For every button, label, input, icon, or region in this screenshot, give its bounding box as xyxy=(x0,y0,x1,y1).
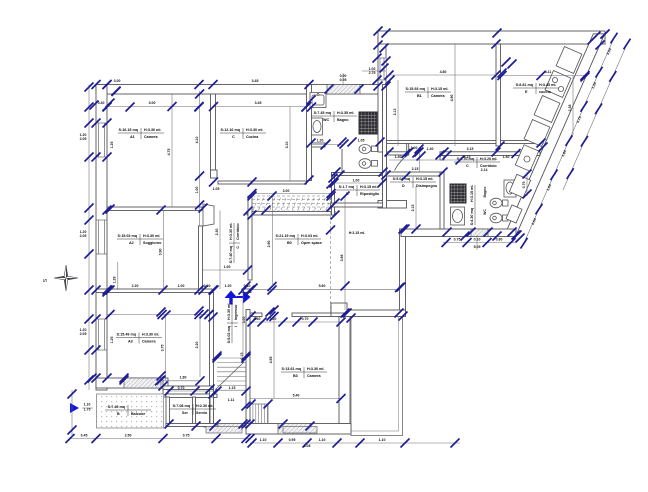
room label C Corridoio right xyxy=(454,157,500,168)
svg-text:2.05: 2.05 xyxy=(80,234,87,238)
washbasin bagno top xyxy=(312,118,323,135)
svg-text:S:16.15 mq: S:16.15 mq xyxy=(119,128,138,132)
svg-text:H:3.30 ml.: H:3.30 ml. xyxy=(229,223,233,240)
room label B3 Camera xyxy=(281,367,327,378)
wall y290 right stub xyxy=(242,289,251,293)
wall between A1 and A2 xyxy=(107,207,202,211)
toilet bagno top xyxy=(359,145,371,154)
svg-text:S:7.08 mq: S:7.08 mq xyxy=(173,404,190,408)
svg-text:4.10: 4.10 xyxy=(195,137,199,144)
dim cucina vertical xyxy=(289,107,291,181)
svg-text:1.20: 1.20 xyxy=(317,139,324,143)
dashed beam line vertical in open space xyxy=(330,196,332,313)
svg-text:0.80: 0.80 xyxy=(496,238,503,242)
window B3 bottom xyxy=(278,424,310,435)
dim top wall A1 xyxy=(107,84,199,86)
corridor nook stub wall xyxy=(383,152,409,155)
svg-text:Bagno: Bagno xyxy=(483,187,487,198)
dim open space vertical right xyxy=(344,196,346,310)
svg-text:H:3.20 ml.: H:3.20 ml. xyxy=(480,157,497,161)
window dim tick line xyxy=(342,73,344,84)
dim stub below window2 xyxy=(117,262,119,290)
svg-text:H:3.15 ml.: H:3.15 ml. xyxy=(416,177,433,181)
svg-text:1.28: 1.28 xyxy=(113,277,117,284)
dim bottom right row xyxy=(250,442,460,444)
svg-text:3.10: 3.10 xyxy=(285,142,289,149)
svg-text:1.00: 1.00 xyxy=(224,265,231,269)
diagonal dimension line 2 (outer) xyxy=(563,44,627,190)
svg-text:3.00: 3.00 xyxy=(149,101,156,105)
notch chimney above B3 xyxy=(331,303,347,313)
dim bottom left row xyxy=(70,438,250,440)
svg-text:3.66: 3.66 xyxy=(340,255,344,262)
soggiorno right wall xyxy=(199,226,203,291)
dim door vertical x419.5 xyxy=(419,147,421,172)
dim B3 vertical 4.55 xyxy=(273,317,275,399)
svg-text:C: C xyxy=(232,135,235,139)
room label D Disimpegno xyxy=(390,177,438,188)
window left wall 3 xyxy=(97,319,107,350)
svg-text:1.10: 1.10 xyxy=(84,403,91,407)
svg-text:Ingresso: Ingresso xyxy=(234,304,238,320)
svg-text:S:7.49 mq: S:7.49 mq xyxy=(108,405,125,409)
dim line above wall x365-386 xyxy=(362,70,386,72)
svg-text:2.50: 2.50 xyxy=(125,434,132,438)
kitchen counter units along diagonal xyxy=(556,47,582,74)
dim B1 vertical xyxy=(454,44,456,146)
room label A2 Soggiorno xyxy=(117,234,163,245)
svg-text:0.95: 0.95 xyxy=(289,438,296,442)
room label C Cucina xyxy=(220,128,266,139)
svg-text:S:7.40 mq: S:7.40 mq xyxy=(229,246,233,263)
room label B Balcone xyxy=(105,405,151,416)
svg-text:1.40: 1.40 xyxy=(395,155,402,159)
upper block top wall xyxy=(378,31,605,44)
svg-text:C: C xyxy=(466,164,469,168)
terrace parapet around B3 xyxy=(351,315,403,436)
svg-text:2.05: 2.05 xyxy=(80,332,87,336)
sink right bagno xyxy=(451,207,465,225)
bagno+ripostiglio right wall xyxy=(383,85,387,209)
svg-text:H:3.30 ml.: H:3.30 ml. xyxy=(144,128,161,132)
svg-text:2.30: 2.30 xyxy=(215,229,219,236)
svg-text:1.25: 1.25 xyxy=(110,337,114,344)
svg-text:H:3.15 ml.: H:3.15 ml. xyxy=(470,185,474,202)
svg-text:S:5.04 mq: S:5.04 mq xyxy=(393,177,410,181)
svg-text:4.55: 4.55 xyxy=(269,357,273,364)
dimension tick clusters at wall junctions xyxy=(493,29,502,38)
svg-text:H:3.35 ml.: H:3.35 ml. xyxy=(337,111,354,115)
dim corridor 1.00 xyxy=(203,269,248,271)
svg-text:H:3.30 ml.: H:3.30 ml. xyxy=(246,128,263,132)
svg-text:2.75: 2.75 xyxy=(369,71,376,75)
dim 3.00 over dashed band xyxy=(252,193,331,195)
dim ripostiglio 1.00 xyxy=(335,182,383,184)
svg-text:0.45: 0.45 xyxy=(81,434,88,438)
B3 left wall xyxy=(246,310,250,428)
servizio bottom wall xyxy=(166,424,217,427)
svg-text:1.25: 1.25 xyxy=(110,142,114,149)
room label A1 Camera xyxy=(118,128,164,139)
dim B1 left vertical xyxy=(397,80,399,146)
svg-text:WC: WC xyxy=(323,118,329,122)
bagno right left wall xyxy=(440,172,444,229)
B3 terrace outline outer xyxy=(0,0,1,1)
open space right wall xyxy=(400,229,406,316)
rb vert dim xyxy=(476,235,478,250)
balcone bottom-left floor xyxy=(97,394,164,428)
svg-text:A1: A1 xyxy=(130,135,135,139)
svg-text:3.15: 3.15 xyxy=(467,147,474,151)
svg-text:H:3.45 ml.: H:3.45 ml. xyxy=(539,83,556,87)
dim B3 top row xyxy=(250,321,341,323)
entrance arrow up xyxy=(225,291,238,305)
svg-text:3.15: 3.15 xyxy=(464,155,471,159)
svg-text:H:3.30 ml.: H:3.30 ml. xyxy=(227,303,231,320)
dim 0.75 bagno right side xyxy=(526,172,528,196)
exterior left wall xyxy=(96,85,107,391)
low wall below wardrobe band xyxy=(247,212,335,216)
wall between A1 and cucina xyxy=(211,94,216,170)
toilet right bagno xyxy=(490,198,502,208)
svg-text:S:8.81 mq: S:8.81 mq xyxy=(516,83,533,87)
door jamb hook below cucina wall xyxy=(211,170,218,178)
balcony arrow right xyxy=(70,403,79,413)
B3 top wall right of door xyxy=(292,313,347,317)
window left wall 1 xyxy=(97,123,107,157)
svg-text:3.45: 3.45 xyxy=(255,101,262,105)
sink between cucina and bagno xyxy=(310,93,326,108)
dim servizio top xyxy=(169,390,217,392)
svg-text:0.40: 0.40 xyxy=(98,101,105,105)
svg-text:4.75: 4.75 xyxy=(167,149,171,156)
svg-text:S:5.02 mq: S:5.02 mq xyxy=(227,326,231,343)
svg-text:3.45: 3.45 xyxy=(252,79,259,83)
svg-text:Camera: Camera xyxy=(142,340,156,344)
svg-text:1.20: 1.20 xyxy=(225,284,232,288)
dim A3 top row xyxy=(107,314,210,316)
sink bowl on counter xyxy=(524,156,530,162)
dashed wardrobe band in open space xyxy=(252,196,331,211)
svg-text:0.40: 0.40 xyxy=(254,317,261,321)
svg-text:cucina: cucina xyxy=(539,90,552,94)
svg-text:H:3.15 ml.: H:3.15 ml. xyxy=(349,231,366,235)
assorted dimension ticks xyxy=(195,103,204,112)
svg-text:WC: WC xyxy=(483,209,487,215)
ingresso left wall / stair shaft xyxy=(210,293,214,428)
sink2 right bagno top-right xyxy=(504,180,516,197)
room label I Ingresso (vertical) xyxy=(227,303,238,344)
cucina right wall / bagno left xyxy=(307,85,312,181)
svg-text:1.00: 1.00 xyxy=(195,187,199,194)
room label C Corridoio left (vertical) xyxy=(229,223,240,264)
dim balcone left vertical xyxy=(71,390,73,437)
upper block bottom wall xyxy=(383,141,543,144)
svg-text:0.75: 0.75 xyxy=(522,182,526,189)
bidet right bagno xyxy=(490,213,502,223)
svg-text:1.10: 1.10 xyxy=(260,438,267,442)
cucina bottom wall xyxy=(218,181,307,184)
room label B0 Open space xyxy=(275,234,322,245)
entrance arrow right xyxy=(237,296,244,298)
dim open space 5.60 xyxy=(252,289,401,291)
dim left exterior line xyxy=(88,85,90,391)
hob circles on counter xyxy=(552,77,557,82)
shower bagno top xyxy=(359,112,377,134)
svg-text:3.00: 3.00 xyxy=(114,79,121,83)
dim A1 right wall segments xyxy=(199,91,201,226)
svg-text:3.75: 3.75 xyxy=(161,345,165,352)
svg-text:Disimpegno: Disimpegno xyxy=(416,184,438,188)
svg-text:C: C xyxy=(236,246,240,249)
svg-text:2.15: 2.15 xyxy=(411,205,415,212)
exterior top wall of main block xyxy=(96,85,386,95)
svg-text:2.13: 2.13 xyxy=(393,109,397,116)
servizio right wall xyxy=(210,397,214,427)
dim A3 1.80 xyxy=(160,380,201,382)
dim open space vertical 2.90 xyxy=(272,196,274,286)
svg-text:5.40: 5.40 xyxy=(293,394,300,398)
svg-text:1.80: 1.80 xyxy=(180,376,187,380)
room label B1 Camera xyxy=(405,87,451,98)
svg-text:I: I xyxy=(234,326,238,327)
toilet area bottom wall xyxy=(332,173,387,176)
svg-text:H:3.03 ml.: H:3.03 ml. xyxy=(301,234,318,238)
svg-text:B: B xyxy=(117,412,120,416)
svg-text:S: S xyxy=(43,278,49,282)
svg-text:H:3.30 ml.: H:3.30 ml. xyxy=(307,367,324,371)
upper block left wall xyxy=(378,31,386,152)
A3 bottom wall right lower part xyxy=(163,386,213,390)
svg-text:2.15: 2.15 xyxy=(412,167,419,171)
corridor right wall xyxy=(248,196,252,280)
door leaf soggiorno->corridoio xyxy=(203,204,214,226)
svg-text:B1: B1 xyxy=(417,94,422,98)
balcone dim divider xyxy=(82,407,93,409)
right bagno top wall (corridor bottom edge) xyxy=(440,152,540,156)
dim row above y290 xyxy=(107,292,199,294)
small stair flight right of shaft xyxy=(249,404,251,424)
svg-text:S:15.93 mq: S:15.93 mq xyxy=(406,87,425,91)
svg-text:2.20: 2.20 xyxy=(195,342,199,349)
svg-text:1.10: 1.10 xyxy=(319,438,326,442)
svg-text:S:13.81 mq: S:13.81 mq xyxy=(282,367,301,371)
svg-text:0.75: 0.75 xyxy=(454,238,461,242)
disimpegno bottom wall xyxy=(378,201,407,209)
dim ingresso vertical xyxy=(242,293,244,357)
svg-text:H:2.30 ml.: H:2.30 ml. xyxy=(196,404,213,408)
svg-text:Ser: Ser xyxy=(182,411,189,415)
dim A3 vertical 2.20 xyxy=(199,315,201,378)
dim interior top A1 xyxy=(107,106,199,108)
dim interior top cucina xyxy=(214,106,307,108)
window top wall (cucina) xyxy=(327,85,360,95)
svg-text:A2: A2 xyxy=(129,241,134,245)
svg-text:H:3.30 ml.: H:3.30 ml. xyxy=(142,333,159,337)
svg-text:1.05: 1.05 xyxy=(358,139,365,143)
svg-text:Camera: Camera xyxy=(431,94,445,98)
dim E vertical xyxy=(572,76,574,136)
dim B1 top interior xyxy=(389,74,496,76)
svg-text:1.40: 1.40 xyxy=(503,155,510,159)
servizio left wall xyxy=(166,397,170,427)
svg-text:4.90: 4.90 xyxy=(450,95,454,102)
svg-text:4.80: 4.80 xyxy=(440,70,447,74)
wall between B1 and E cucina xyxy=(496,44,501,146)
svg-text:Soggiorno: Soggiorno xyxy=(143,241,162,245)
dim corridor vertical xyxy=(219,211,221,290)
ripostiglio bottom wall xyxy=(331,203,387,207)
svg-text:1.15: 1.15 xyxy=(229,386,236,390)
main stair treads in stair shaft xyxy=(217,357,246,359)
svg-text:5.60: 5.60 xyxy=(319,284,326,288)
shower right bagno xyxy=(450,184,466,203)
corridor top-right wall y172 xyxy=(386,172,443,176)
room label WC Bagno xyxy=(311,111,357,122)
svg-text:1.05: 1.05 xyxy=(213,187,220,191)
svg-text:Servio: Servio xyxy=(196,411,208,415)
svg-text:1.00: 1.00 xyxy=(411,146,418,150)
dim A1 vertical xyxy=(171,94,173,207)
diagonal exterior wall xyxy=(505,34,605,235)
wall between A2 and A3 (y290) xyxy=(96,289,212,293)
diagonal dimension line 1 xyxy=(524,38,614,243)
svg-text:1.10: 1.10 xyxy=(379,438,386,442)
svg-text:S:7.45 mq: S:7.45 mq xyxy=(314,111,331,115)
svg-text:S:21.19 mq: S:21.19 mq xyxy=(276,234,295,238)
door stair shaft bottom xyxy=(218,424,243,428)
svg-text:0.75: 0.75 xyxy=(183,434,190,438)
stair break line xyxy=(215,362,244,390)
dim bagno bottom row xyxy=(312,144,343,146)
dim B1 bottom row xyxy=(389,159,496,161)
wall above right bagno bottom xyxy=(401,229,516,237)
dim A3 vertical 3.75 xyxy=(165,315,167,381)
room label A3 Camera xyxy=(116,333,162,344)
svg-text:Open space: Open space xyxy=(301,241,322,245)
svg-text:1.00: 1.00 xyxy=(353,179,360,183)
svg-text:Camera: Camera xyxy=(307,374,321,378)
svg-text:H:3.15 ml.: H:3.15 ml. xyxy=(431,87,448,91)
svg-text:Bagno: Bagno xyxy=(337,118,349,122)
svg-text:S:15.49 mq: S:15.49 mq xyxy=(117,333,136,337)
svg-text:Balcone: Balcone xyxy=(131,412,145,416)
bagno top bottom wall xyxy=(312,143,326,147)
room label R Ripostiglio xyxy=(334,185,380,196)
dim right bagno bottom xyxy=(443,242,515,244)
svg-text:Corridoio: Corridoio xyxy=(236,223,240,240)
svg-text:1.40: 1.40 xyxy=(427,147,434,151)
svg-text:0.70: 0.70 xyxy=(302,317,309,321)
room label Servizio xyxy=(170,404,216,415)
bagno right left wall top stub xyxy=(440,156,444,161)
svg-text:B3: B3 xyxy=(293,374,298,378)
window upper block left wall xyxy=(379,58,387,80)
room label E cucina xyxy=(513,83,559,94)
svg-text:3.08: 3.08 xyxy=(304,444,311,448)
door leaf disimpegno xyxy=(395,155,409,171)
svg-text:0.70: 0.70 xyxy=(178,386,185,390)
B3 bottom wall xyxy=(246,424,351,435)
corridor nook jog xyxy=(407,144,409,156)
svg-text:H:3.15 ml.: H:3.15 ml. xyxy=(360,185,377,189)
servizio divider wall xyxy=(193,397,196,427)
room label right bagno (vertical S:4.30) xyxy=(470,185,475,226)
toilet screen partition xyxy=(341,149,343,174)
window right bagno bottom xyxy=(471,229,488,237)
dim soggiorno vertical xyxy=(163,211,165,290)
svg-text:2.20: 2.20 xyxy=(132,284,139,288)
B3 right exterior wall xyxy=(339,317,350,424)
bidet bagno top xyxy=(359,159,371,169)
open space / B3 top wall xyxy=(250,313,262,317)
window left wall 2 xyxy=(97,220,107,254)
svg-text:Ripostiglio: Ripostiglio xyxy=(360,192,380,196)
svg-text:S:4.30 mq: S:4.30 mq xyxy=(470,208,474,225)
svg-text:2.90: 2.90 xyxy=(267,241,271,248)
svg-text:1.11: 1.11 xyxy=(228,398,235,402)
open space bottom-right wall xyxy=(331,310,406,317)
svg-text:B0: B0 xyxy=(287,241,292,245)
svg-text:2.14: 2.14 xyxy=(481,168,488,172)
main block right wall xyxy=(383,94,387,208)
balcony door A3 xyxy=(124,378,161,388)
svg-text:3.90: 3.90 xyxy=(159,249,163,256)
svg-text:2.05: 2.05 xyxy=(80,137,87,141)
step wall left of servizio xyxy=(163,378,168,397)
servizio top wall xyxy=(166,394,217,398)
balcony slab below B3 window xyxy=(283,427,317,434)
stair shaft bottom wall xyxy=(204,424,246,428)
svg-text:Camera: Camera xyxy=(144,135,158,139)
svg-text:D: D xyxy=(402,184,405,188)
svg-text:S:15.03 mq: S:15.03 mq xyxy=(118,234,137,238)
dim disimpegno vertical xyxy=(415,186,417,229)
exterior bottom wall left (below A3) xyxy=(96,378,166,388)
svg-text:3.00: 3.00 xyxy=(283,189,290,193)
svg-text:H:3.30 ml.: H:3.30 ml. xyxy=(143,234,160,238)
svg-text:Cucina: Cucina xyxy=(246,135,259,139)
svg-text:A3: A3 xyxy=(128,340,133,344)
compass star xyxy=(54,265,78,291)
dim E cucina top xyxy=(502,75,585,77)
balcony slab below stair shaft xyxy=(206,427,242,434)
svg-text:S:1.7 mq: S:1.7 mq xyxy=(339,185,354,189)
svg-text:1.00: 1.00 xyxy=(178,284,185,288)
ripostiglio left wall xyxy=(332,173,335,216)
svg-text:2.38: 2.38 xyxy=(568,105,572,112)
svg-text:S:12.16 mq: S:12.16 mq xyxy=(221,128,240,132)
dim B3 5.40 xyxy=(250,398,341,400)
svg-text:3.00: 3.00 xyxy=(242,317,246,324)
